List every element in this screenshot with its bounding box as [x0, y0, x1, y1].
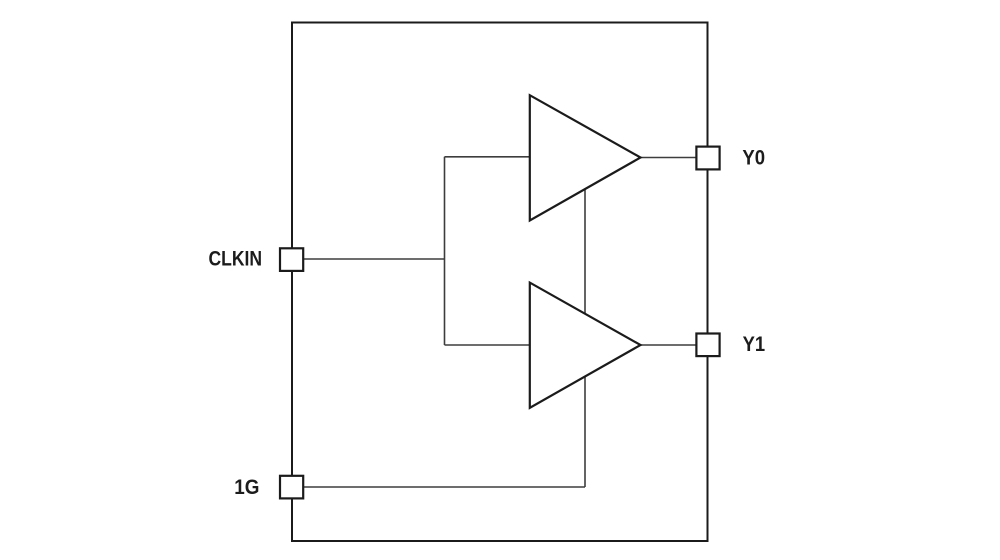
svg-text:Y0: Y0	[742, 145, 765, 170]
svg-text:CLKIN: CLKIN	[209, 246, 263, 271]
svg-text:Y1: Y1	[743, 331, 766, 356]
svg-text:1G: 1G	[234, 474, 259, 499]
